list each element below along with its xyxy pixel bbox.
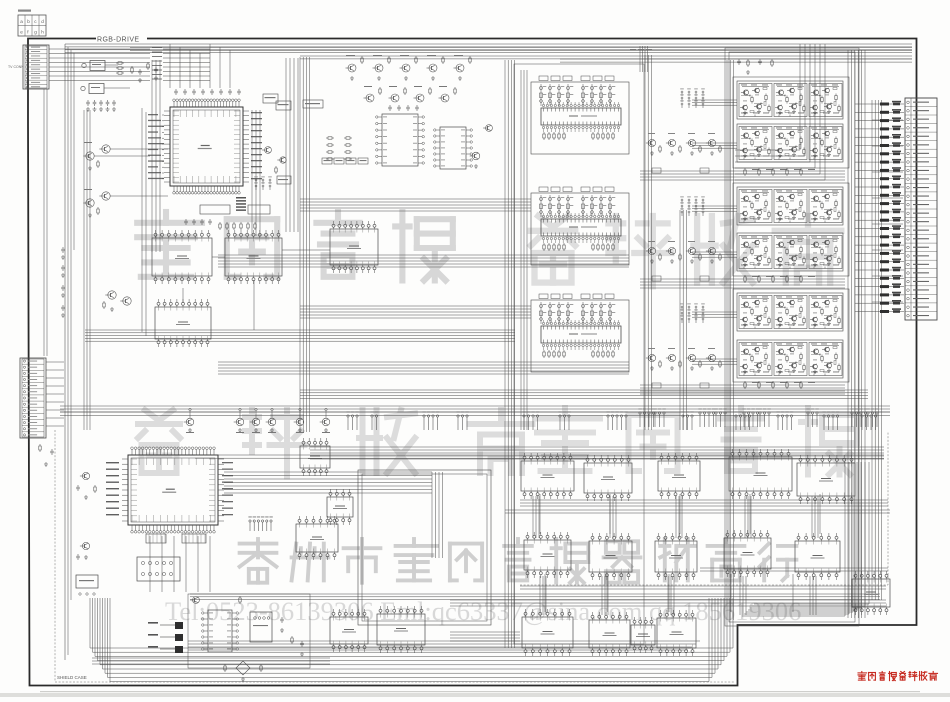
svg-text:SHIELD CASE: SHIELD CASE bbox=[57, 675, 87, 680]
mid horizontal bundle y305 bbox=[300, 305, 531, 307]
IC U104 with pins bbox=[225, 238, 282, 276]
row feed wires bbox=[692, 99, 737, 101]
long bus y390 bbox=[300, 389, 868, 391]
wires bottom rows bbox=[505, 509, 890, 511]
connector fan second blob column bbox=[893, 103, 900, 106]
watermark row2 left bbox=[138, 410, 180, 473]
watermark row3 company name bbox=[240, 539, 277, 583]
mid vertical bus B bbox=[504, 60, 506, 648]
stub clusters row mid page bbox=[347, 415, 349, 417]
left mid caps bbox=[62, 247, 64, 249]
small parts top right cells bbox=[738, 59, 740, 61]
wires pairs to right bbox=[110, 148, 168, 150]
wire bundle bottom mid bbox=[450, 631, 520, 633]
IC row3 U414 bbox=[589, 620, 630, 648]
cell row R1 bbox=[737, 81, 843, 119]
transistor quad row3 bbox=[648, 354, 655, 361]
nested boxes around mid ladder column bbox=[514, 64, 644, 644]
IC row2 U407 bbox=[589, 541, 632, 572]
boxed labels row bbox=[322, 158, 332, 164]
QFP IC2 microcontroller bbox=[128, 455, 218, 525]
horizontal bundles between right groups bbox=[640, 170, 845, 172]
connector bars below IC2 bbox=[146, 534, 166, 543]
small part left edge bbox=[39, 444, 41, 446]
dark pads column bbox=[175, 622, 183, 629]
long bus y330 bbox=[85, 329, 515, 331]
bottom page edge shadow bbox=[0, 693, 950, 697]
parts right of IC1 lower bbox=[277, 176, 291, 184]
bottom routing loops bbox=[90, 598, 733, 648]
cell row R4 bbox=[737, 233, 843, 271]
connector J1 bbox=[23, 45, 49, 89]
wires QFP1 left trunk bbox=[141, 108, 143, 332]
bottom routing loops inner bbox=[188, 640, 700, 642]
svg-text:g: g bbox=[34, 30, 37, 35]
IC row1 U401 bbox=[521, 461, 574, 491]
IC row3 small U415 bbox=[631, 625, 655, 645]
transistor Q105 Q106 bbox=[108, 291, 116, 299]
IC bottom right U417 bbox=[852, 579, 890, 607]
cell row R2 bbox=[737, 124, 843, 162]
svg-text:Tel:0523-86139306 Eml:qc63337: Tel:0523-86139306 Eml:qc63337@sina.com q… bbox=[165, 596, 801, 626]
svg-text:e: e bbox=[20, 30, 23, 35]
transistor Q204 bbox=[486, 125, 493, 132]
IC row1 U403 bbox=[658, 461, 700, 491]
cell row R6 bbox=[737, 340, 843, 378]
IC row2 U409 bbox=[724, 538, 771, 569]
bottom bundle y600 right bbox=[450, 599, 886, 601]
transistor Q203 bbox=[472, 152, 480, 160]
vertical IC U202 bbox=[440, 127, 466, 169]
big empty routing box bbox=[358, 470, 491, 625]
routing between J1 and IC1 bbox=[151, 60, 153, 252]
resistor grid RG2 bbox=[681, 199, 683, 201]
right cell column bus bbox=[726, 60, 728, 620]
component row below IC1 second bbox=[185, 219, 187, 221]
mid horizontal bundle y255 bbox=[218, 254, 629, 256]
svg-text:b: b bbox=[27, 19, 30, 24]
left trunk wires bbox=[83, 110, 85, 430]
IC U103 with pins bbox=[152, 238, 212, 276]
nested boxes around right cell column bbox=[729, 52, 855, 622]
svg-text:TV CONN: TV CONN bbox=[8, 65, 24, 69]
watermark row1 right bbox=[531, 216, 575, 283]
right mid bundle y568 bbox=[700, 567, 888, 569]
IC row2 U408 bbox=[655, 541, 697, 572]
red collection stamp bbox=[858, 672, 867, 681]
components below IC1 bbox=[200, 205, 230, 214]
cell row R3 bbox=[737, 187, 843, 225]
IC row3 U411 bbox=[330, 617, 368, 644]
mid vertical bus C bbox=[644, 55, 646, 430]
wires ladder feeds bbox=[520, 70, 522, 430]
resistor grid RG3 bbox=[681, 306, 683, 308]
dashed shield case boundary bbox=[55, 430, 735, 682]
IC U106 with pins bbox=[155, 307, 211, 339]
label columns IC2 bbox=[106, 462, 119, 463]
IC row3 U413 bbox=[522, 617, 573, 648]
parts above U201 bbox=[389, 105, 391, 107]
net label column left of IC1 bbox=[148, 114, 158, 115]
parts between cell groups bbox=[744, 168, 746, 170]
IC block group3 bbox=[531, 300, 629, 372]
top bus extra lines bbox=[130, 47, 912, 49]
IC row2 U406 bbox=[524, 540, 571, 570]
wires between DIP blocks bbox=[212, 256, 225, 258]
small ICs right of IC1 bbox=[263, 94, 278, 103]
bundle into right connector bbox=[872, 119, 903, 121]
wires from J2 bbox=[46, 361, 64, 363]
IC block group2 bbox=[531, 193, 629, 265]
wire drops to IC1 bbox=[169, 44, 171, 88]
diode bridge bbox=[236, 661, 250, 675]
input section parts right bbox=[131, 66, 133, 68]
watermark row1 left bbox=[137, 212, 202, 277]
border frame bbox=[28, 39, 96, 121]
QFP2 output bundle bbox=[224, 471, 432, 473]
audio section outer box bbox=[188, 594, 310, 668]
op-amp U102 bbox=[89, 84, 104, 94]
IC block LA7912 group1 bbox=[531, 82, 629, 154]
transistor Q101 Q102 bbox=[86, 152, 94, 160]
stub clusters right half bbox=[639, 412, 641, 414]
vertical bundles between bottom IC rows bbox=[532, 496, 534, 538]
mid horizontal bundle y200 bbox=[300, 198, 531, 200]
verticals bottom ic rows bbox=[544, 574, 546, 612]
IC row1 U404 bbox=[729, 457, 792, 491]
group box right cells B bbox=[733, 183, 849, 276]
title table bbox=[18, 15, 46, 36]
svg-text:RGB-DRIVE: RGB-DRIVE bbox=[97, 37, 140, 44]
QFP2 bottom verticals bbox=[149, 536, 151, 592]
mid vertical bus A bbox=[299, 57, 301, 432]
resistor fan to connector bbox=[855, 103, 880, 105]
stub bundle top mid-right bbox=[639, 46, 641, 72]
svg-text:d: d bbox=[41, 19, 44, 24]
group box right cells C bbox=[733, 289, 849, 382]
transistor row T201 bbox=[348, 64, 356, 72]
watermark row2 right bbox=[537, 408, 600, 471]
small IC right of IC2 bbox=[327, 497, 353, 517]
IC row3 U416 bbox=[657, 618, 696, 648]
connector CN right bbox=[905, 98, 937, 320]
regulator left bottom bbox=[76, 575, 98, 588]
ladder left of U201 bbox=[326, 137, 328, 139]
connector J2 bbox=[20, 358, 46, 438]
cell row R5 bbox=[737, 293, 843, 331]
box with pins left bottom bbox=[137, 557, 180, 581]
transistor Q103 Q104 bbox=[86, 199, 94, 207]
left trunk extension bbox=[67, 430, 69, 655]
top horizontal bus bbox=[65, 43, 912, 45]
IC row3 U412 bbox=[377, 614, 425, 645]
IC U1 QFP microcontroller bbox=[170, 107, 243, 186]
small parts audio area bbox=[193, 597, 200, 604]
trimmer right of IC1 bbox=[265, 147, 272, 154]
IC U302 bbox=[250, 612, 272, 642]
caps under input amps bbox=[87, 100, 89, 102]
dark label stack below IC1 bbox=[236, 197, 246, 199]
right bottom nested routing bbox=[742, 462, 845, 616]
vertical IC U201 bbox=[382, 114, 418, 166]
audio DIP IC U301 bbox=[208, 610, 232, 652]
transistor row T202 bbox=[366, 94, 374, 102]
long bus y410 bbox=[60, 405, 890, 407]
op-amp U101 bbox=[90, 61, 105, 71]
stub cluster near IC2 top bbox=[249, 520, 251, 522]
transistor quad row1 bbox=[648, 139, 655, 146]
IC row1 U402 bbox=[584, 463, 632, 493]
small boxed labels under quads bbox=[652, 168, 661, 173]
svg-text:h: h bbox=[41, 30, 44, 35]
group box right cells A bbox=[733, 77, 849, 168]
wide band y412 bbox=[60, 411, 890, 413]
net label column right of IC1 bbox=[251, 112, 262, 113]
IC U105 with pins bbox=[330, 229, 378, 265]
svg-text:a: a bbox=[20, 19, 23, 24]
resistor grid RG1 bbox=[681, 91, 683, 93]
right trunk bus bbox=[847, 50, 849, 618]
IC row2 U410 bbox=[795, 541, 840, 572]
bundle under stub row bbox=[310, 446, 884, 448]
caps above IC1 bbox=[175, 89, 177, 91]
bottom mid routing bbox=[190, 593, 880, 595]
mid horizontal bundle y362 bbox=[218, 361, 629, 363]
vertical bundle right of IC1 bbox=[251, 110, 253, 236]
IC row1 U405 bbox=[797, 463, 855, 496]
bottom left bundle bbox=[92, 657, 330, 659]
diag bundle right top bbox=[735, 44, 800, 150]
crystal circuit left of IC2 bbox=[82, 472, 89, 479]
transistor quad row2 bbox=[648, 247, 655, 254]
IC mid bottom bbox=[296, 524, 338, 552]
resistors input network bbox=[116, 62, 118, 64]
resistor pack below-right of IC1 bbox=[255, 179, 257, 181]
transistor row mid page bbox=[186, 418, 194, 426]
small IC above-right of IC2 bbox=[300, 446, 330, 468]
wires from J1 bbox=[49, 48, 150, 50]
bundle above bottom IC row1 bbox=[520, 499, 888, 501]
